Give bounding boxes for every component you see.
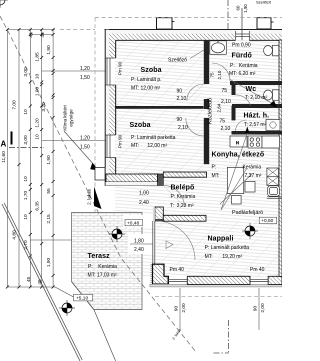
svg-text:H: H <box>236 140 239 145</box>
svg-text:1,90: 1,90 <box>46 258 52 268</box>
wc west wall pieces <box>232 85 236 121</box>
svg-text:75: 75 <box>210 72 215 78</box>
svg-text:Pm 90: Pm 90 <box>118 61 123 75</box>
furdo/wc wall <box>235 81 282 85</box>
szelozo window gap in north wall <box>236 8 250 40</box>
svg-text:Padlásfeljáró: Padlásfeljáró <box>232 210 263 216</box>
svg-text:2,15: 2,15 <box>46 214 52 224</box>
svg-text:P: Laminált parketta: P: Laminált parketta <box>131 135 176 141</box>
svg-text:2. lakás: 2. lakás <box>87 188 92 205</box>
svg-text:A: A <box>1 140 7 149</box>
apartment divider dash-dot top <box>227 0 229 30</box>
svg-text:MT: 12,00 m²: MT: 12,00 m² <box>131 143 167 149</box>
svg-text:Pm 40: Pm 40 <box>250 267 265 273</box>
west wall pieces <box>105 29 116 185</box>
furdo door arc <box>212 63 230 81</box>
svg-text:P:: P: <box>212 164 217 170</box>
svg-text:Belépő: Belépő <box>171 184 195 191</box>
svg-text:2,10: 2,10 <box>178 125 188 131</box>
svg-text:6,35: 6,35 <box>34 201 40 211</box>
svg-text:Pm 90: Pm 90 <box>118 134 123 148</box>
svg-text:P: Laminált parketta: P: Laminált parketta <box>205 245 250 251</box>
svg-text:2,40: 2,40 <box>139 200 149 206</box>
kitchen sink <box>268 186 280 196</box>
north wall <box>105 29 282 40</box>
svg-text:Terasz: Terasz <box>88 253 111 260</box>
wc door arc <box>236 95 251 106</box>
left dim rotated labels <box>1 32 266 313</box>
svg-text:1,20: 1,20 <box>34 118 40 128</box>
svg-text:45: 45 <box>26 277 32 283</box>
south sill band <box>150 284 282 287</box>
chair right <box>245 182 255 193</box>
window W2 1,20/1,50 glazing <box>105 135 116 158</box>
east wall <box>279 40 282 276</box>
svg-text:3,00: 3,00 <box>23 135 29 145</box>
svg-text:MT: 12,00 m²: MT: 12,00 m² <box>131 85 161 91</box>
stove 4 burners <box>248 136 262 148</box>
chair below <box>232 196 242 205</box>
45deg sparse hatch nappali <box>157 221 279 276</box>
kitchen diagonal D3 with arrow3 <box>221 133 247 210</box>
svg-text:Házt. h.: Házt. h. <box>244 112 270 119</box>
svg-text:+0,50: +0,50 <box>261 218 273 224</box>
svg-text:2,10: 2,10 <box>221 126 231 132</box>
svg-text:MT: 17,03 m²: MT: 17,03 m² <box>88 273 118 279</box>
window W1 1,20/1,50 glazing <box>105 58 116 85</box>
svg-text:10: 10 <box>34 134 40 140</box>
chimney A <box>157 18 173 29</box>
szoba2 door arc <box>186 118 204 136</box>
svg-text:+0,48: +0,48 <box>127 220 139 226</box>
terasz brick paving <box>72 213 155 310</box>
svg-text:1,90: 1,90 <box>243 4 248 13</box>
svg-text:2,64: 2,64 <box>217 103 222 112</box>
svg-text:7,37 m²: 7,37 m² <box>245 173 262 179</box>
svg-text:MT: 19,20 m²: MT: 19,20 m² <box>205 254 243 260</box>
svg-text:45: 45 <box>37 279 43 285</box>
padlasfeljaro leader <box>221 168 247 210</box>
front door arc <box>163 185 184 206</box>
svg-text:45: 45 <box>40 32 46 38</box>
room floor fine texture: whole interior <box>115 40 279 277</box>
furdo toilet <box>264 45 279 56</box>
svg-text:Klíma kültéri: Klíma kültéri <box>63 105 68 130</box>
svg-text:1,20: 1,20 <box>80 135 90 141</box>
svg-text:2,10: 2,10 <box>217 70 222 79</box>
svg-text:Szellőző: Szellőző <box>256 0 272 5</box>
svg-text:egysége: egysége <box>69 109 74 127</box>
svg-text:90: 90 <box>174 306 180 312</box>
svg-text:10: 10 <box>23 176 29 182</box>
fridge boxes <box>267 168 279 185</box>
SW corner pillar L <box>153 264 169 284</box>
svg-text:2,40: 2,40 <box>134 247 144 253</box>
svg-text:1,90: 1,90 <box>46 45 52 55</box>
tick marks <box>6 28 55 289</box>
belepo south wall <box>163 215 206 221</box>
svg-text:10: 10 <box>23 214 29 220</box>
svg-text:Fürdő: Fürdő <box>232 53 252 60</box>
hazt door arc <box>236 120 247 131</box>
level boxes <box>74 217 277 301</box>
svg-text:10: 10 <box>34 74 40 80</box>
kitchen counter H unit <box>230 136 247 147</box>
svg-text:1,00: 1,00 <box>34 87 40 97</box>
wc/hazt wall <box>232 104 282 108</box>
svg-text:3,00: 3,00 <box>23 67 29 77</box>
west glazing 1,80 opening <box>153 221 155 264</box>
svg-text:P: Kerámia: P: Kerámia <box>88 264 117 270</box>
45deg sparse hatch szoba1 <box>115 40 203 106</box>
svg-text:T: 2,10 m²: T: 2,10 m² <box>245 95 268 101</box>
arrow2 <box>270 101 278 108</box>
dining table <box>227 167 243 193</box>
svg-text:2,00: 2,00 <box>260 303 266 313</box>
svg-text:10: 10 <box>23 109 29 115</box>
plot line lower <box>72 282 116 361</box>
svg-text:7,00: 7,00 <box>12 100 18 110</box>
arrow3 <box>245 127 249 134</box>
front door jamb block <box>158 174 164 185</box>
south window S1 glazing <box>168 276 188 284</box>
svg-text:90: 90 <box>177 88 183 94</box>
svg-text:1,20: 1,20 <box>80 66 90 72</box>
south window S2 glazing <box>250 276 268 284</box>
svg-text:MT: 6,20 m²: MT: 6,20 m² <box>229 71 256 77</box>
south wall segments <box>187 276 282 284</box>
klima unit box <box>95 168 105 181</box>
nappali west opening arc <box>156 221 195 260</box>
counter edge lines <box>267 197 282 199</box>
2.lakas arrow1 big <box>94 187 102 210</box>
svg-text:P: Kerámia: P: Kerámia <box>230 63 258 69</box>
svg-text:Közlekedő: Közlekedő <box>208 98 214 124</box>
svg-text:T: 3,23 m²: T: 3,23 m² <box>170 203 194 209</box>
svg-text:60: 60 <box>236 5 241 10</box>
szoba east wall pieces <box>204 40 209 164</box>
svg-text:90: 90 <box>253 306 259 312</box>
svg-text:Wc: Wc <box>246 86 257 93</box>
svg-text:2,10: 2,10 <box>177 96 187 102</box>
svg-text:75: 75 <box>222 88 228 94</box>
svg-text:1,50: 1,50 <box>80 75 90 81</box>
svg-text:P: Laminált p.: P: Laminált p. <box>131 77 162 83</box>
svg-text:1,00: 1,00 <box>139 190 149 196</box>
szoba divider wall <box>115 106 204 109</box>
svg-text:2,10: 2,10 <box>221 99 231 105</box>
svg-text:4,80: 4,80 <box>12 230 18 240</box>
diagonal in wc with arrow2 <box>230 80 275 106</box>
klima leader + arrow <box>64 131 95 166</box>
svg-text:Pm 0,90: Pm 0,90 <box>232 42 251 48</box>
szoba1 door arc <box>187 84 204 101</box>
svg-text:2,70: 2,70 <box>23 240 29 250</box>
svg-text:Szoba: Szoba <box>130 122 151 129</box>
washbasin <box>210 41 227 55</box>
svg-text:55: 55 <box>46 188 52 194</box>
svg-text:45: 45 <box>29 32 35 38</box>
svg-text:90: 90 <box>177 117 183 123</box>
svg-text:1,85: 1,85 <box>34 52 40 62</box>
front door lower pillar <box>155 207 163 221</box>
svg-text:P: Kerámia: P: Kerámia <box>171 194 196 200</box>
svg-text:1,90: 1,90 <box>46 155 52 165</box>
svg-text:Szellőző: Szellőző <box>168 58 187 64</box>
svg-text:1,70: 1,70 <box>23 191 29 201</box>
svg-text:T: 2,57 m²: T: 2,57 m² <box>244 122 267 128</box>
svg-text:3,20: 3,20 <box>41 102 47 112</box>
svg-text:Kerámia: Kerámia <box>243 164 262 170</box>
svg-text:1,80: 1,80 <box>134 238 144 244</box>
svg-text:75: 75 <box>220 118 226 124</box>
belepo north wall <box>163 172 206 177</box>
svg-text:11,60: 11,60 <box>1 151 7 163</box>
apartment divider dash-dot bottom <box>214 320 229 353</box>
hazt/konyha wall <box>232 131 283 135</box>
counter right <box>262 136 280 148</box>
szoba2 south exterior wall <box>106 174 158 182</box>
dashed property diagonal D1 <box>0 16 196 352</box>
svg-text:+5,10: +5,10 <box>76 296 88 302</box>
45deg sparse hatch szoba2 <box>115 109 203 174</box>
chimney B <box>257 18 271 29</box>
svg-text:Szoba: Szoba <box>141 67 162 74</box>
furdo door jamb on y81 wall <box>230 81 235 85</box>
svg-text:1,50: 1,50 <box>80 144 90 150</box>
svg-text:Pm 40: Pm 40 <box>170 267 185 273</box>
attic ladder diagonal D4 <box>220 174 252 204</box>
washing machine <box>266 120 280 131</box>
svg-text:Konyha, étkező: Konyha, étkező <box>212 152 265 159</box>
street double line <box>2 203 82 361</box>
svg-text:Nappali: Nappali <box>208 235 234 242</box>
svg-text:MT:: MT: <box>212 173 220 179</box>
wc toilet <box>264 90 279 101</box>
szellozo leader <box>190 50 204 59</box>
svg-text:2,00: 2,00 <box>181 303 187 313</box>
